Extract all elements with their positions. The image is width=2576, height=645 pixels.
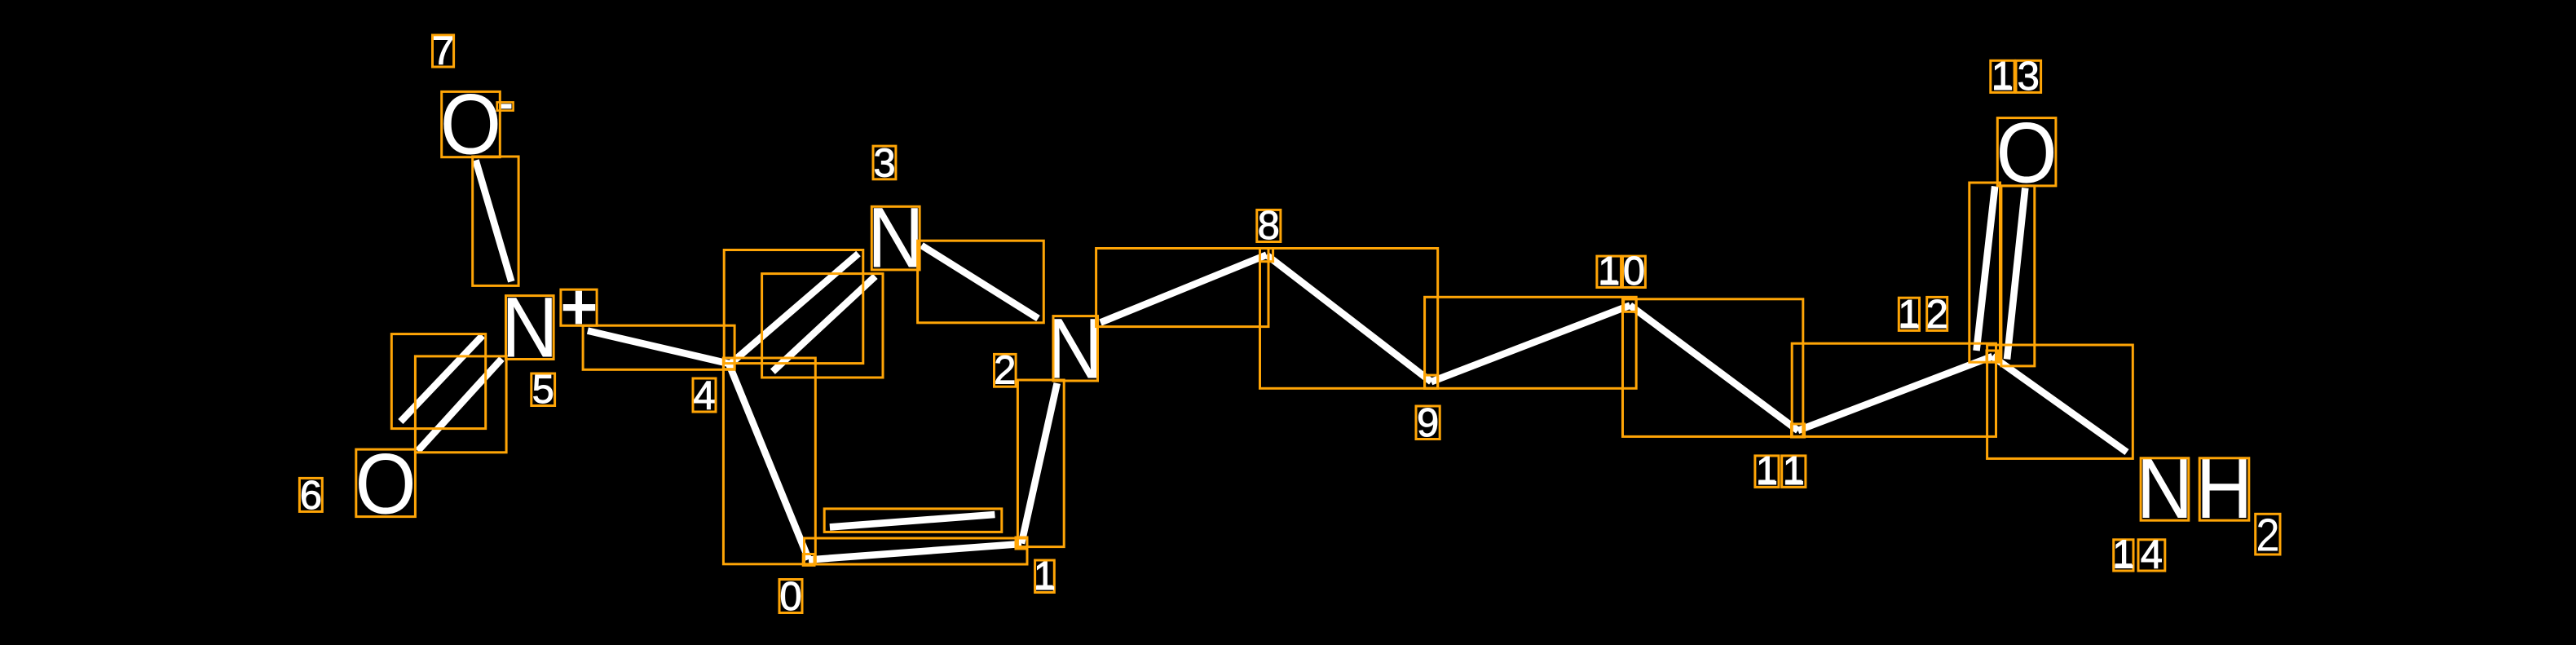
bbox atom C10 (junction square) [1624, 299, 1637, 312]
index label 3 (atom N3) [873, 141, 896, 185]
index label 10 digit 1 [1597, 250, 1621, 294]
index label 7 (atom O7) [432, 29, 454, 73]
bbox bond C4=N3 inner line [762, 274, 883, 378]
svg-text:9: 9 [1417, 401, 1439, 445]
svg-text:0: 0 [1623, 250, 1645, 294]
index label 8 (atom C8) [1257, 204, 1281, 248]
bbox bond N2-C1 [1017, 380, 1064, 547]
index label 14 digit 4 [2138, 533, 2165, 577]
bond C8-C9 (single) [1267, 255, 1431, 382]
bbox bond C10-C11 [1623, 299, 1803, 437]
bond N2-C1 (ring single) [1021, 383, 1057, 544]
bond C4-C0 (ring single) [729, 364, 809, 559]
bond C0=C1 inner line [830, 515, 995, 527]
svg-text:N: N [867, 191, 924, 286]
bond C4=N3 main line [730, 254, 858, 364]
bond C11-C12 (single) [1798, 356, 1992, 431]
bbox bond O7-N5 [473, 157, 518, 285]
bbox bond N5=O6 main line [415, 356, 506, 453]
svg-text:1: 1 [1598, 250, 1620, 294]
charge minus on O7 [499, 104, 511, 108]
svg-text:4: 4 [2141, 533, 2163, 577]
bond N5-C4 (single) [588, 331, 731, 364]
svg-text:2: 2 [2256, 509, 2279, 562]
svg-text:6: 6 [300, 474, 322, 518]
bbox charge minus O7 [497, 102, 514, 110]
svg-text:8: 8 [1258, 204, 1280, 248]
bbox bond C4-C0 [723, 358, 815, 564]
svg-text:H: H [2196, 441, 2253, 537]
svg-text:0: 0 [779, 575, 801, 619]
index label 1 (atom C1) [1034, 554, 1056, 599]
svg-text:3: 3 [873, 141, 895, 185]
bbox atom N14 subscript 2 [2256, 514, 2280, 554]
bond C4=N3 inner line [773, 276, 876, 372]
index label 2 (atom N2) [994, 349, 1016, 393]
bond O7-N5 (single) [476, 161, 512, 282]
bbox atom C12 (junction square) [1987, 351, 1998, 362]
svg-text:7: 7 [432, 29, 454, 73]
index label 11 first digit 1 [1755, 449, 1779, 493]
bbox bond C12=O13 right line [2001, 186, 2035, 366]
bond C9-C10 (single) [1431, 306, 1630, 382]
bbox bond C9-C10 [1425, 297, 1637, 388]
charge plus on N5 [563, 291, 596, 325]
svg-text:N: N [2137, 441, 2194, 537]
bbox bond C12=O13 left line [1969, 183, 2000, 362]
bond N3-N2 (ring single) [922, 245, 1039, 319]
bond N5=O6 second line [400, 336, 483, 422]
bond C10-C11 (single) [1630, 306, 1798, 431]
bbox bond C8-C9 [1260, 249, 1438, 389]
bond N5=O6 main line [418, 359, 502, 451]
bbox atom O6 [356, 449, 416, 517]
bbox bond N5-C4 [583, 325, 734, 369]
bbox bond N5=O6 second line [391, 334, 485, 429]
bbox atom N14 letter N [2141, 458, 2189, 520]
bond C12-N14 (single) [1992, 356, 2127, 453]
index label 11 second digit 1 [1782, 449, 1806, 493]
svg-text:1: 1 [1992, 55, 2014, 99]
index label 13 digit 1 [1991, 55, 2014, 99]
bbox bond C12-N14 [1987, 345, 2133, 458]
bbox charge plus N5 [561, 289, 597, 325]
bbox atom C9 (junction square) [1425, 375, 1438, 388]
index label 4 (atom C4) [693, 374, 716, 418]
bbox atom O13 [1997, 118, 2056, 186]
bbox atom C1 (junction square) [1016, 537, 1027, 549]
svg-text:1: 1 [2112, 533, 2134, 577]
bbox atom N14 letter H [2199, 458, 2249, 520]
index label 12 digit 2 [1926, 293, 1948, 337]
index label 13 digit 3 [2016, 55, 2041, 99]
index label 6 (atom O6) [299, 474, 322, 518]
bbox bond N3-N2 [918, 241, 1044, 323]
bond C12=O13 left line [1977, 187, 1996, 351]
svg-text:3: 3 [2018, 55, 2040, 99]
index label 9 (atom C9) [1416, 401, 1440, 445]
bbox atom N3 [871, 206, 920, 270]
bond N2-C8 (single) [1101, 255, 1267, 323]
bbox bond C4=N3 main line [724, 250, 863, 364]
svg-text:4: 4 [693, 374, 715, 418]
bbox atom N2 [1053, 316, 1098, 381]
bbox bond C11-C12 [1792, 343, 1996, 436]
svg-text:2: 2 [994, 349, 1016, 393]
bbox bond C0=C1 main line [805, 538, 1028, 564]
index label 5 (atom N5) [532, 368, 555, 412]
bbox atom O7 [442, 91, 501, 157]
bbox bond C0=C1 inner line [824, 509, 1002, 532]
svg-text:1: 1 [1783, 449, 1805, 493]
svg-text:1: 1 [1898, 293, 1920, 337]
svg-text:2: 2 [1926, 293, 1948, 337]
bbox bond N2-C8 [1096, 249, 1268, 327]
index label 0 (atom C0) [779, 575, 802, 619]
index label 14 digit 1 [2112, 533, 2134, 577]
bbox atom C0 (junction square) [803, 554, 814, 566]
svg-text:5: 5 [532, 368, 554, 412]
index label 10 digit 0 [1623, 250, 1646, 294]
index label 12 digit 1 [1898, 293, 1920, 337]
bond C0=C1 main line [809, 544, 1021, 560]
svg-text:1: 1 [1756, 449, 1778, 493]
bond C12=O13 right line [2007, 188, 2025, 360]
bbox atom C8 (junction square) [1260, 249, 1273, 262]
bbox atom N5 [506, 296, 554, 360]
bbox atom C4 (junction square) [723, 358, 734, 369]
bbox atom C11 (junction square) [1792, 424, 1805, 437]
svg-text:1: 1 [1034, 554, 1056, 599]
